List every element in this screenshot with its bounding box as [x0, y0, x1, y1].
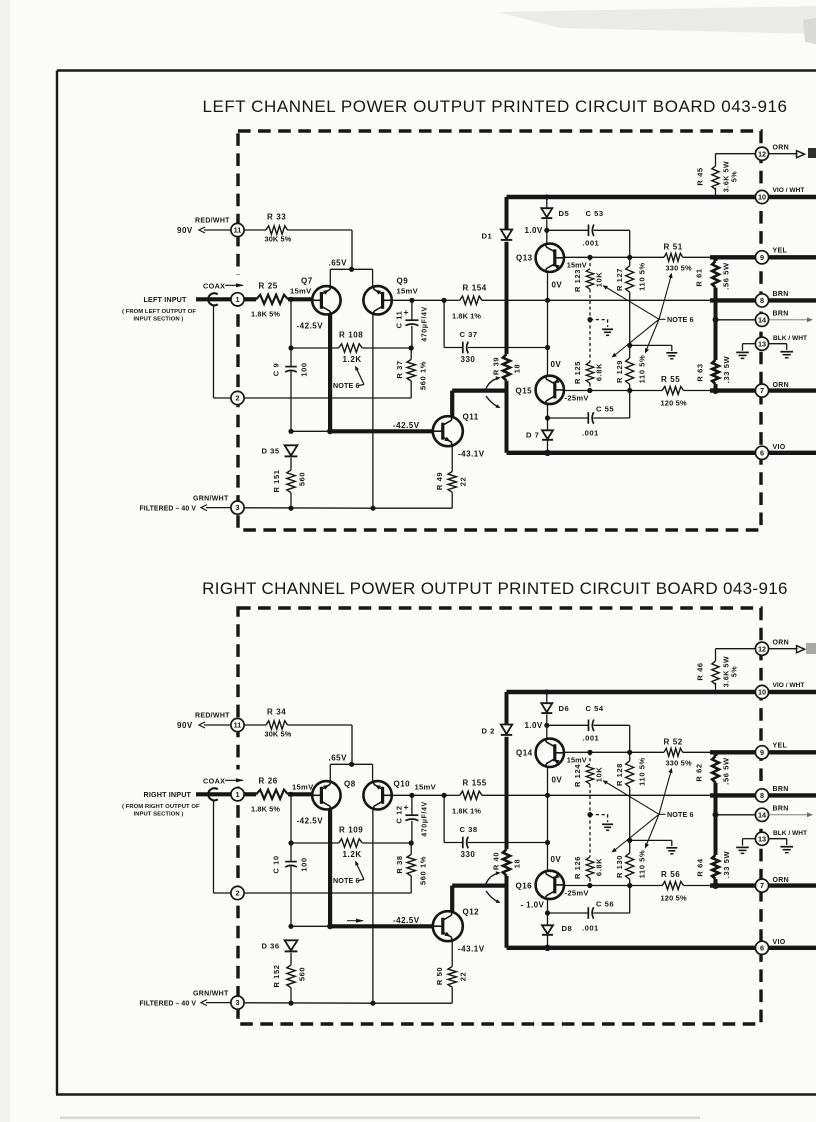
svg-text:INPUT SECTION ): INPUT SECTION ) — [134, 812, 184, 818]
diode D 2 — [501, 725, 512, 735]
svg-text:1.8K 1%: 1.8K 1% — [452, 312, 481, 321]
wire node 9 thick — [710, 750, 816, 754]
svg-text:120 5%: 120 5% — [661, 399, 687, 408]
svg-text:R 52: R 52 — [664, 738, 683, 747]
node 8 — [755, 294, 768, 307]
transistor Q13 — [536, 244, 564, 272]
svg-text:R 63: R 63 — [695, 363, 704, 381]
coax shield — [208, 788, 218, 800]
svg-text:D 36: D 36 — [262, 942, 280, 951]
svg-text:R 45: R 45 — [695, 167, 704, 185]
svg-text:0V: 0V — [551, 855, 562, 864]
node 12 — [755, 642, 768, 655]
svg-text:Q7: Q7 — [301, 277, 313, 286]
svg-text:Q10: Q10 — [394, 779, 411, 788]
svg-text:R 124: R 124 — [573, 764, 582, 787]
svg-text:R 64: R 64 — [695, 858, 704, 876]
svg-text:- 1.0V: - 1.0V — [521, 901, 545, 910]
resistor R 128 — [629, 752, 631, 761]
svg-text:8: 8 — [760, 296, 764, 305]
input wire — [196, 297, 231, 301]
node 9 — [755, 251, 768, 264]
svg-text:BLK / WHT: BLK / WHT — [773, 830, 807, 837]
capacitor C 38 — [443, 795, 445, 842]
svg-text:C 11: C 11 — [394, 311, 403, 329]
wire Q13 base rail — [564, 256, 664, 258]
board outline dashed box — [238, 131, 761, 530]
svg-text:R 125: R 125 — [573, 361, 582, 384]
diode D 36 — [285, 940, 298, 950]
transistor Q11 — [433, 416, 463, 446]
svg-text:7: 7 — [760, 386, 764, 395]
diode D8 — [542, 925, 553, 934]
svg-text:15mV: 15mV — [290, 287, 312, 296]
svg-text:RED/WHT: RED/WHT — [195, 713, 230, 720]
svg-text:Q16: Q16 — [516, 882, 533, 891]
resistor R 56 — [662, 882, 683, 890]
transistor Q10 — [363, 781, 391, 809]
capacitor C 9 — [290, 299, 292, 366]
svg-text:1: 1 — [235, 790, 239, 799]
diode D1 — [501, 230, 512, 240]
svg-text:11: 11 — [234, 721, 242, 730]
node 11 — [204, 229, 231, 231]
transistor Q14 — [536, 739, 564, 767]
svg-text:6: 6 — [760, 943, 764, 952]
svg-text:R 109: R 109 — [339, 826, 363, 835]
svg-text:560 1%: 560 1% — [418, 856, 427, 885]
svg-text:LEFT INPUT: LEFT INPUT — [144, 295, 187, 304]
svg-text:C 12: C 12 — [394, 805, 403, 823]
wire Q15 base rail — [564, 885, 662, 887]
svg-text:-25mV: -25mV — [565, 889, 590, 898]
svg-text:COAX: COAX — [203, 777, 225, 786]
svg-text:5%: 5% — [731, 171, 738, 182]
svg-text:R 61: R 61 — [694, 268, 703, 286]
transistor Q12 — [433, 911, 463, 941]
svg-text:R 151: R 151 — [272, 469, 281, 492]
svg-text:120 5%: 120 5% — [661, 894, 687, 903]
resistor R 45 — [716, 153, 756, 155]
svg-text:110 5%: 110 5% — [637, 850, 646, 879]
svg-text:C 37: C 37 — [460, 330, 478, 339]
curved arrows near R39 — [486, 873, 500, 885]
svg-text:14: 14 — [758, 315, 767, 324]
wire Q13 base rail — [564, 751, 664, 753]
svg-text:BLK / WHT: BLK / WHT — [773, 335, 807, 342]
wire node 8 thick — [710, 298, 816, 302]
resistor R 62 — [714, 752, 718, 756]
wire Q9 base to R154 node — [392, 794, 412, 796]
svg-text:12: 12 — [758, 149, 766, 158]
svg-text:2: 2 — [235, 394, 239, 403]
curved arrows near R39 — [486, 378, 500, 390]
svg-text:.56 5W: .56 5W — [721, 757, 730, 785]
svg-text:10K: 10K — [594, 272, 603, 288]
svg-text:Q15: Q15 — [516, 387, 533, 396]
svg-text:Q14: Q14 — [516, 749, 533, 758]
svg-text:22: 22 — [458, 477, 467, 487]
svg-text:+: + — [404, 307, 409, 317]
svg-text:R 49: R 49 — [435, 472, 444, 490]
svg-text:.56 5W: .56 5W — [721, 262, 730, 290]
resistor R 129 — [626, 358, 634, 385]
svg-text:22: 22 — [458, 972, 467, 982]
svg-text:ORN: ORN — [773, 877, 789, 884]
wire Q13 emitter to Q15 collector — [547, 272, 549, 376]
svg-text:GRN/WHT: GRN/WHT — [193, 991, 229, 998]
svg-text:D5: D5 — [559, 209, 570, 218]
capacitor C 53 — [547, 229, 588, 231]
transistor Q16 — [536, 871, 564, 899]
node 1 — [231, 293, 244, 306]
resistor R 109 — [288, 840, 293, 845]
svg-text:C 38: C 38 — [460, 825, 478, 834]
svg-text:9: 9 — [760, 748, 764, 757]
wire Q11 collector thick — [450, 886, 454, 913]
svg-text:18: 18 — [512, 859, 521, 869]
svg-text:R 123: R 123 — [573, 269, 582, 292]
wire main vertical rail thick — [505, 197, 509, 230]
svg-text:1.8K 1%: 1.8K 1% — [452, 807, 481, 816]
svg-text:5%: 5% — [731, 666, 738, 677]
svg-text:470μF/4V: 470μF/4V — [421, 306, 428, 342]
svg-text:VIO / WHT: VIO / WHT — [773, 187, 805, 194]
label COAX — [235, 275, 242, 292]
svg-text:Q12: Q12 — [463, 908, 480, 917]
svg-text:R 37: R 37 — [395, 360, 404, 378]
svg-text:30K 5%: 30K 5% — [265, 235, 292, 244]
svg-text:90V: 90V — [177, 226, 193, 235]
capacitor C 55 — [548, 417, 589, 419]
wire bottom output bus thick — [507, 451, 816, 455]
svg-text:ORN: ORN — [773, 382, 789, 389]
svg-text:BRN: BRN — [773, 806, 789, 813]
node 10 — [755, 190, 768, 203]
svg-text:YEL: YEL — [773, 248, 788, 255]
svg-text:R 55: R 55 — [661, 375, 680, 384]
node 3 — [231, 501, 244, 514]
resistor R 124 dashed leads — [589, 752, 591, 763]
capacitor C 12 — [411, 795, 413, 815]
svg-text:560: 560 — [297, 472, 306, 486]
svg-text:R 26: R 26 — [259, 777, 278, 786]
svg-text:R 39: R 39 — [491, 357, 500, 375]
svg-text:13: 13 — [758, 339, 766, 348]
wire Q15 emitter down — [547, 404, 549, 430]
resistor R 37 — [407, 359, 415, 381]
wire .65V rail — [330, 763, 372, 765]
svg-text:3.6K 5W: 3.6K 5W — [723, 161, 730, 192]
wire feedback rail — [412, 794, 444, 796]
svg-text:LEFT CHANNEL POWER OUTPUT: LEFT CHANNEL POWER OUTPUT PRINTED CIRCUI… — [202, 97, 787, 116]
svg-text:15mV: 15mV — [397, 287, 419, 296]
svg-text:D 2: D 2 — [482, 727, 495, 736]
transistor Q9 — [363, 286, 391, 314]
svg-text:YEL: YEL — [773, 743, 788, 750]
svg-text:R 152: R 152 — [272, 964, 281, 987]
svg-text:VIO: VIO — [773, 444, 786, 451]
svg-text:Q8: Q8 — [344, 779, 356, 788]
node 13 with grounds — [755, 832, 768, 845]
svg-text:.65V: .65V — [329, 259, 348, 268]
svg-text:110 5%: 110 5% — [637, 262, 646, 291]
wire Q13 emitter to Q15 collector — [547, 767, 549, 871]
svg-text:D6: D6 — [559, 704, 570, 713]
resistor R 51 — [664, 253, 683, 261]
resistor R 33 — [244, 229, 266, 231]
wire Q15 emitter down — [547, 899, 549, 925]
svg-text:( FROM LEFT OUTPUT OF: ( FROM LEFT OUTPUT OF — [122, 309, 196, 315]
input wire — [196, 792, 231, 796]
resistor R 61 — [714, 257, 718, 261]
svg-text:15mV: 15mV — [415, 783, 437, 792]
node 2 — [231, 886, 244, 899]
diode D6 — [544, 689, 549, 694]
resistor R 63 — [714, 300, 718, 360]
svg-text:470μF/4V: 470μF/4V — [421, 801, 428, 837]
svg-text:R 40: R 40 — [491, 852, 500, 870]
svg-text:VIO: VIO — [773, 939, 786, 946]
svg-text:R 154: R 154 — [463, 284, 487, 293]
svg-text:GRN/WHT: GRN/WHT — [193, 496, 229, 503]
wire node 7 thick — [710, 883, 816, 887]
svg-text:3: 3 — [235, 998, 239, 1007]
resistor R 26 — [244, 792, 256, 796]
node 2 — [231, 391, 244, 404]
resistor R 130 — [626, 853, 634, 880]
svg-text:1.0V: 1.0V — [525, 226, 543, 235]
svg-text:14: 14 — [758, 810, 767, 819]
capacitor C 56 — [548, 912, 589, 914]
board outline dashed box — [238, 608, 761, 1024]
node 1 — [231, 788, 244, 801]
resistor R 25 — [244, 297, 256, 301]
resistor R 39 — [503, 354, 510, 380]
svg-text:R 33: R 33 — [267, 213, 286, 222]
svg-text:1.0V: 1.0V — [525, 721, 543, 730]
svg-text:R 34: R 34 — [267, 708, 286, 717]
resistor R 34 — [244, 724, 266, 726]
svg-text:C 9: C 9 — [271, 363, 280, 376]
svg-text:COAX: COAX — [203, 282, 225, 291]
node 11 — [204, 724, 231, 726]
wire Q9 emitter down — [372, 809, 374, 1003]
coax shield — [208, 293, 218, 305]
wire node 8 thick — [710, 793, 816, 797]
ground R127 R129 midpoint — [627, 343, 632, 348]
resistor R 152 — [287, 965, 295, 988]
svg-text:.001: .001 — [583, 239, 600, 248]
svg-text:-43.1V: -43.1V — [458, 450, 485, 459]
svg-text:D 35: D 35 — [262, 447, 280, 456]
svg-text:3.6K 5W: 3.6K 5W — [723, 656, 730, 687]
svg-text:10: 10 — [758, 193, 766, 202]
transistor Q7 — [312, 286, 340, 314]
svg-text:VIO / WHT: VIO / WHT — [773, 682, 805, 689]
wire Q7 emitter thick — [328, 314, 332, 431]
svg-text:-42.5V: -42.5V — [297, 817, 324, 826]
scan artifact bottom gray line — [60, 1117, 700, 1120]
svg-text:6: 6 — [760, 448, 764, 457]
svg-text:NOTE 6: NOTE 6 — [333, 876, 360, 885]
svg-text:R 155: R 155 — [463, 779, 487, 788]
wire Q9 base to R154 node — [392, 299, 412, 301]
svg-text:FILTERED – 40 V: FILTERED – 40 V — [140, 506, 197, 513]
wire .65V rail — [330, 268, 372, 270]
wire Q7 emitter thick — [328, 809, 332, 926]
svg-text:10K: 10K — [594, 767, 603, 783]
svg-text:30K 5%: 30K 5% — [265, 730, 292, 739]
svg-text:R 51: R 51 — [664, 243, 683, 252]
wire node 9 thick — [710, 255, 816, 259]
wire feedback rail — [412, 299, 444, 301]
svg-text:ORN: ORN — [773, 145, 789, 152]
resistor R 38 — [407, 854, 415, 876]
svg-text:NOTE 6: NOTE 6 — [667, 315, 694, 324]
svg-text:7: 7 — [760, 881, 764, 890]
ground tap dashed — [587, 317, 592, 322]
resistor R 49 — [451, 446, 453, 472]
svg-text:90V: 90V — [177, 721, 193, 730]
svg-text:-42.5V: -42.5V — [393, 421, 420, 430]
node 14 — [716, 319, 756, 321]
svg-text:NOTE 6: NOTE 6 — [333, 381, 360, 390]
svg-text:R 25: R 25 — [259, 282, 278, 291]
svg-text:15mV: 15mV — [292, 783, 314, 792]
svg-text:BRN: BRN — [773, 291, 789, 298]
node 7 — [755, 384, 768, 397]
svg-text:330: 330 — [461, 850, 476, 859]
svg-text:C 53: C 53 — [586, 209, 604, 218]
scan artifact top-right gray wedge — [497, 6, 816, 34]
resistor R 55 — [662, 387, 683, 395]
svg-text:Q13: Q13 — [516, 254, 533, 263]
wire node 7 thick — [710, 388, 816, 392]
svg-text:R 126: R 126 — [573, 856, 582, 879]
node 14 — [716, 814, 756, 816]
svg-text:R 62: R 62 — [694, 763, 703, 781]
svg-text:6.8K: 6.8K — [594, 363, 603, 381]
svg-text:NOTE 6: NOTE 6 — [667, 810, 694, 819]
resistor R 46 — [716, 648, 756, 650]
svg-text:R 130: R 130 — [615, 855, 624, 878]
scan mark right of node12 arrow — [808, 148, 816, 158]
resistor R 126 dashed leads — [589, 815, 591, 857]
capacitor C 54 — [547, 724, 588, 726]
wire top output bus thick — [507, 690, 816, 694]
diode D5 — [544, 194, 549, 199]
node 9 — [755, 746, 768, 759]
svg-text:C 10: C 10 — [271, 855, 280, 873]
label COAX — [235, 770, 242, 787]
svg-text:ORN: ORN — [773, 640, 789, 647]
ground tap dashed — [587, 812, 592, 817]
node 6 — [755, 941, 768, 954]
wire R33 to .65V node — [351, 725, 353, 764]
ground R127 R129 midpoint — [627, 838, 632, 843]
node 6 — [755, 446, 768, 459]
svg-text:1.8K 5%: 1.8K 5% — [251, 805, 280, 814]
capacitor C 37 — [443, 300, 445, 347]
resistor R 155 — [444, 794, 460, 796]
svg-text:8: 8 — [760, 791, 764, 800]
svg-text:Q9: Q9 — [397, 277, 409, 286]
svg-text:0V: 0V — [551, 360, 562, 369]
svg-text:R 56: R 56 — [661, 870, 680, 879]
svg-text:330: 330 — [461, 355, 476, 364]
svg-text:11: 11 — [234, 226, 242, 235]
svg-text:110 5%: 110 5% — [637, 757, 646, 786]
wire bottom output bus thick — [507, 946, 816, 950]
svg-text:Q11: Q11 — [463, 413, 479, 422]
wire Q15 base rail — [564, 390, 662, 392]
resistor R 64 — [714, 795, 718, 855]
resistor R 108 — [288, 345, 293, 350]
wire top output bus thick — [507, 195, 816, 199]
svg-text:330 5%: 330 5% — [666, 759, 692, 768]
svg-text:0V: 0V — [552, 776, 563, 785]
resistor R 127 — [629, 257, 631, 266]
svg-text:( FROM RIGHT OUTPUT OF: ( FROM RIGHT OUTPUT OF — [122, 804, 200, 810]
svg-text:2: 2 — [235, 889, 239, 898]
svg-text:R 50: R 50 — [435, 967, 444, 985]
transistor Q15 — [536, 376, 564, 404]
svg-text:15mV: 15mV — [567, 756, 587, 765]
svg-text:D8: D8 — [562, 924, 573, 933]
svg-text:1: 1 — [235, 295, 239, 304]
svg-text:110 5%: 110 5% — [637, 355, 646, 384]
svg-text:R 38: R 38 — [395, 855, 404, 873]
svg-text:1.2K: 1.2K — [343, 355, 362, 364]
svg-text:C 56: C 56 — [596, 900, 614, 909]
svg-text:330 5%: 330 5% — [666, 264, 692, 273]
svg-text:-42.5V: -42.5V — [297, 322, 324, 331]
wire Q11 collector thick — [450, 391, 454, 418]
svg-text:560 1%: 560 1% — [418, 361, 427, 390]
node 13 with grounds — [755, 337, 768, 350]
transistor Q8 — [312, 781, 340, 809]
svg-text:15mV: 15mV — [567, 261, 587, 270]
svg-text:INPUT SECTION ): INPUT SECTION ) — [134, 317, 184, 323]
svg-text:R 108: R 108 — [339, 331, 363, 340]
svg-text:.65V: .65V — [329, 754, 348, 763]
resistor R 50 — [451, 941, 453, 967]
svg-text:3: 3 — [235, 503, 239, 512]
node 3 — [231, 996, 244, 1009]
svg-text:RIGHT INPUT: RIGHT INPUT — [144, 790, 192, 799]
diode D 35 — [285, 445, 298, 455]
svg-text:.33 5W: .33 5W — [722, 356, 731, 384]
svg-text:-25mV: -25mV — [565, 394, 590, 403]
svg-text:-43.1V: -43.1V — [458, 945, 485, 954]
capacitor C 10 — [290, 794, 292, 861]
wire main vertical rail thick — [505, 692, 509, 725]
resistor R 151 — [287, 470, 295, 493]
svg-text:D1: D1 — [482, 232, 493, 241]
svg-text:BRN: BRN — [773, 311, 789, 318]
node 8 — [755, 789, 768, 802]
node 10 — [755, 685, 768, 698]
svg-text:RED/WHT: RED/WHT — [195, 218, 230, 225]
capacitor C 11 — [411, 300, 413, 320]
svg-text:-42.5V: -42.5V — [393, 916, 420, 925]
diode D 7 — [542, 430, 553, 439]
resistor R 154 — [444, 299, 460, 301]
svg-text:13: 13 — [758, 834, 766, 843]
svg-text:.33 5W: .33 5W — [722, 851, 731, 879]
svg-text:9: 9 — [760, 253, 764, 262]
